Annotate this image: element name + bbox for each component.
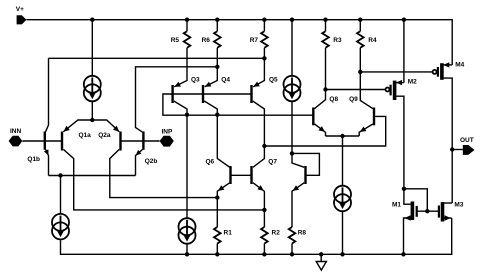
svg-text:M4: M4 [455,61,464,68]
svg-text:V+: V+ [16,6,24,13]
svg-text:R3: R3 [333,37,342,44]
svg-text:R7: R7 [250,37,259,44]
svg-text:Q2a: Q2a [98,132,111,139]
svg-text:M3: M3 [454,202,463,209]
svg-text:R2: R2 [272,230,281,237]
svg-text:M2: M2 [408,78,417,85]
svg-text:M1: M1 [392,202,401,209]
svg-text:INP: INP [162,128,174,135]
svg-text:R1: R1 [224,230,233,237]
svg-text:Q8: Q8 [329,96,338,103]
svg-text:R5: R5 [171,37,180,44]
svg-text:R8: R8 [298,230,307,237]
svg-text:Q1b: Q1b [27,156,40,163]
svg-text:INN: INN [10,128,22,135]
svg-text:Q9: Q9 [349,96,358,103]
svg-text:Q1a: Q1a [79,132,92,139]
svg-text:Q6: Q6 [206,159,215,166]
svg-text:Q3: Q3 [191,76,200,83]
svg-text:Q4: Q4 [221,76,230,83]
svg-text:R4: R4 [368,37,377,44]
svg-text:R6: R6 [202,37,211,44]
svg-text:OUT: OUT [460,137,474,144]
svg-text:Q7: Q7 [268,159,277,166]
svg-text:Q5: Q5 [269,77,278,84]
svg-text:Q2b: Q2b [145,158,158,165]
